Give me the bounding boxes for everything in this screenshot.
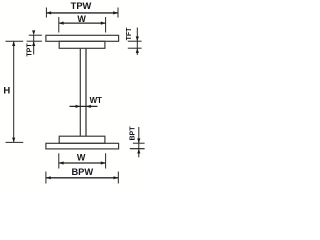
web left wire	[79, 48, 81, 136]
arrow BPW right	[114, 176, 119, 179]
dimension TPT leader	[33, 35, 35, 41]
dimension TPW right tick	[117, 8, 119, 18]
arrow TPW right	[113, 11, 118, 14]
web right wire	[85, 48, 87, 136]
svg-text:W: W	[77, 152, 86, 162]
bottom flange	[59, 136, 105, 143]
dimension W bottom line	[59, 162, 106, 164]
dimension H bottom tick	[6, 141, 24, 143]
top flange	[59, 41, 105, 48]
dimension BPW left tick	[45, 172, 47, 184]
arrow WT left	[76, 105, 81, 108]
arrow H down	[12, 138, 15, 143]
svg-text:TPW: TPW	[71, 1, 92, 11]
dimension BPW line	[46, 177, 118, 179]
top plate	[46, 35, 119, 41]
dimension BPT leader	[138, 127, 140, 149]
dimension BPT tail	[138, 149, 140, 158]
arrow W top left	[59, 22, 64, 25]
bottom plate	[46, 143, 119, 149]
dimension TPW line	[46, 12, 118, 14]
dimension H line	[13, 41, 15, 142]
arrow BPW left	[46, 176, 51, 179]
dimension W top line	[59, 22, 106, 24]
dimension W top left tick	[58, 17, 60, 33]
arrow TFT up	[136, 48, 139, 53]
arrow W top right	[101, 22, 106, 25]
dimension H top tick	[6, 40, 24, 42]
arrow BPT down	[137, 138, 140, 143]
dimension BPT top tick	[133, 142, 145, 144]
dimension TFT leader	[136, 28, 138, 49]
dimension WT line	[70, 105, 98, 107]
arrow TPT up	[32, 41, 35, 46]
arrow H up	[12, 41, 15, 46]
dimension W bottom left tick	[58, 153, 60, 168]
arrow BPT up	[137, 149, 140, 154]
dimension TFT bottom tick	[128, 47, 142, 49]
arrow W bottom left	[59, 161, 64, 164]
svg-text:BPW: BPW	[71, 167, 93, 177]
dimension BPT bottom tick	[130, 148, 145, 150]
dimension TFT top tick	[128, 40, 142, 42]
svg-text:W: W	[77, 14, 86, 24]
svg-text:H: H	[3, 86, 10, 97]
dimension TPT top tick	[29, 34, 42, 36]
svg-text:WT: WT	[90, 96, 102, 105]
svg-text:TFT: TFT	[126, 27, 133, 41]
dimension TFT tail	[136, 48, 138, 55]
dimension TPT bottom tick	[27, 40, 42, 42]
dimension TPW left tick	[45, 8, 47, 18]
svg-text:BPT: BPT	[129, 126, 136, 141]
arrow TFT down	[136, 36, 139, 41]
arrow TPW left	[46, 11, 51, 14]
dimension W top right tick	[105, 17, 107, 33]
arrow WT right	[86, 105, 91, 108]
dimension BPW right tick	[117, 172, 119, 184]
arrow W bottom right	[101, 161, 106, 164]
arrow TPT down	[32, 30, 35, 35]
dimension TPT tail	[33, 41, 35, 54]
dimension W bottom right tick	[105, 153, 107, 168]
svg-text:TPT: TPT	[27, 43, 34, 57]
